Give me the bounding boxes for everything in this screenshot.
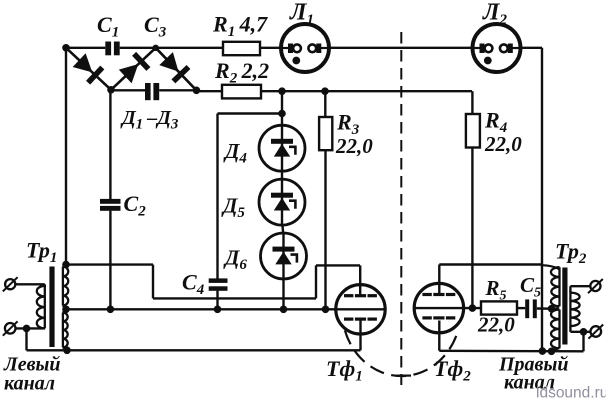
wire R4 down to R5 node xyxy=(471,147,473,308)
wire D6 to bus xyxy=(282,279,284,309)
bus wire y309 with tube TF1 anode line xyxy=(66,308,385,310)
wire C2 to bus xyxy=(109,211,111,310)
Тр2 primary upper winding xyxy=(558,267,560,306)
wire R3 to bus xyxy=(324,150,326,309)
svg-text:канал: канал xyxy=(4,373,55,395)
node Tp2 primary tap xyxy=(548,305,556,313)
node bus x283 xyxy=(280,306,288,314)
wire grid net xyxy=(66,263,153,265)
zener diode Д6 xyxy=(261,233,307,279)
transformer Тр2 core xyxy=(562,268,567,345)
zener diode Д4 xyxy=(259,125,305,171)
resistor R4 xyxy=(466,114,480,148)
node R4/R5/TF2 xyxy=(469,304,477,312)
wire TF2 anode line to R5 node xyxy=(414,307,481,309)
wire diagonal apex to node C xyxy=(156,48,197,91)
wire R5 to C5 xyxy=(517,307,525,309)
wire node to R3 xyxy=(324,91,326,117)
node A top-left xyxy=(62,44,70,52)
diode D1 of group Д1-Д3 xyxy=(73,53,93,72)
transformer Тр1 core xyxy=(49,267,54,348)
svg-text:22,0: 22,0 xyxy=(477,313,515,337)
node C right of bridge xyxy=(193,87,201,95)
wire C3 to node C xyxy=(159,89,196,91)
wire Тр1 primary top lead xyxy=(15,283,45,285)
wire Тр2 secondary top lead xyxy=(569,286,571,293)
node bus x66 xyxy=(62,306,70,314)
diode D3 of group Д1-Д3 xyxy=(159,52,178,72)
wire from lamp L2 down right side xyxy=(541,48,543,351)
node primary bottom x26 xyxy=(23,325,31,333)
node rail x542 xyxy=(539,347,547,355)
neon lamp Л2 xyxy=(473,24,521,72)
svg-text:Д1 –Д3: Д1 –Д3 xyxy=(120,107,179,133)
terminal ø input lower xyxy=(5,323,16,334)
wire D4 to D5 xyxy=(281,171,283,179)
terminal ø output lower xyxy=(591,326,602,337)
wire node to D4 xyxy=(281,91,283,125)
Тр2 primary lower winding xyxy=(558,310,560,349)
wire node B down to C2 xyxy=(109,90,111,199)
capacitor C4 xyxy=(209,278,228,283)
node branch x282 y113.5 xyxy=(278,110,286,118)
terminal ø output upper xyxy=(590,281,600,291)
node apex xyxy=(153,45,159,51)
wire Тр1 primary bottom lead xyxy=(15,327,45,329)
neon lamp Л1 xyxy=(281,24,329,72)
wire diagonal node A to node B xyxy=(66,48,111,90)
svg-text:22,0: 22,0 xyxy=(484,132,522,156)
Тр1 secondary lower winding xyxy=(62,313,64,348)
wire C5 to Tp2 tap xyxy=(537,307,552,310)
wire corner to R4 xyxy=(471,91,473,114)
dashed cross tick xyxy=(396,375,412,377)
node rail x67 xyxy=(63,347,71,355)
node rail x551 xyxy=(548,348,556,356)
resistor R5 xyxy=(481,301,517,314)
wire top bus y48 xyxy=(66,47,105,49)
node under R2 at x325 xyxy=(321,87,329,95)
wire Тр2 primary top link xyxy=(542,265,559,269)
bottom rail right xyxy=(439,350,583,353)
wire node C to R2 xyxy=(196,90,222,92)
wire Тр1 secondary bottom link xyxy=(63,347,67,350)
wire diagonal node B to apex xyxy=(111,48,156,90)
resistor R1 xyxy=(223,42,260,55)
wire Тр1 secondary mid links xyxy=(63,305,66,309)
svg-text:22,0: 22,0 xyxy=(335,134,373,158)
wire branch horizontal y113.5 xyxy=(218,112,283,114)
node transformer Tp1 secondary top xyxy=(62,261,70,269)
capacitor C1 xyxy=(105,42,111,56)
resistor R3 xyxy=(319,117,332,150)
terminal ø input upper xyxy=(5,279,15,289)
wire D5 to D6 xyxy=(281,225,284,233)
svg-text:ldsound.ru: ldsound.ru xyxy=(536,385,606,401)
wire Тр2 primary bottom link xyxy=(552,348,559,351)
node B bottom of bridge xyxy=(107,86,115,94)
wire TF1 cathode stem to rail xyxy=(359,320,361,350)
svg-text:R1 4,7: R1 4,7 xyxy=(212,12,268,41)
wire Тр2 primary tap link xyxy=(552,307,559,310)
resistor R2 xyxy=(222,85,261,99)
wire R2 to R4 branch xyxy=(261,90,472,92)
dashed symmetry line xyxy=(400,32,402,385)
zener diode Д5 xyxy=(259,179,305,225)
tube ТФ2 xyxy=(414,283,463,332)
node bus x110 xyxy=(107,306,115,314)
wire Тр2 secondary bottom lead xyxy=(569,326,571,332)
node Tp2 secondary bottom xyxy=(580,328,588,336)
Тр1 primary winding xyxy=(44,286,46,329)
wire left vertical from node A xyxy=(65,48,67,265)
wire C4 to bus xyxy=(216,291,218,310)
dashed envelope arc xyxy=(345,330,458,376)
wire node B to C3 xyxy=(111,89,145,91)
svg-text:R2 2,2: R2 2,2 xyxy=(214,58,269,87)
bottom rail left xyxy=(27,349,361,351)
wire terminal to rail xyxy=(25,328,27,350)
node under R2 at x282 xyxy=(278,87,286,95)
node bus x325 xyxy=(322,306,330,314)
wire TF2 top net xyxy=(439,263,542,265)
Тр2 secondary winding xyxy=(569,293,571,326)
capacitor C3 xyxy=(145,83,151,100)
wire TF2 cathode stem to rail xyxy=(438,321,440,351)
wire branch vertical x217.5 xyxy=(216,114,218,279)
Тр1 secondary upper winding xyxy=(62,267,64,306)
wire Тр1 secondary top link xyxy=(63,265,66,267)
capacitor C2 xyxy=(100,199,121,204)
diode D2 of group Д1-Д3 xyxy=(119,64,139,83)
tube ТФ1 xyxy=(336,285,385,334)
capacitor C5 xyxy=(525,299,529,318)
node bus x217 xyxy=(214,306,222,314)
